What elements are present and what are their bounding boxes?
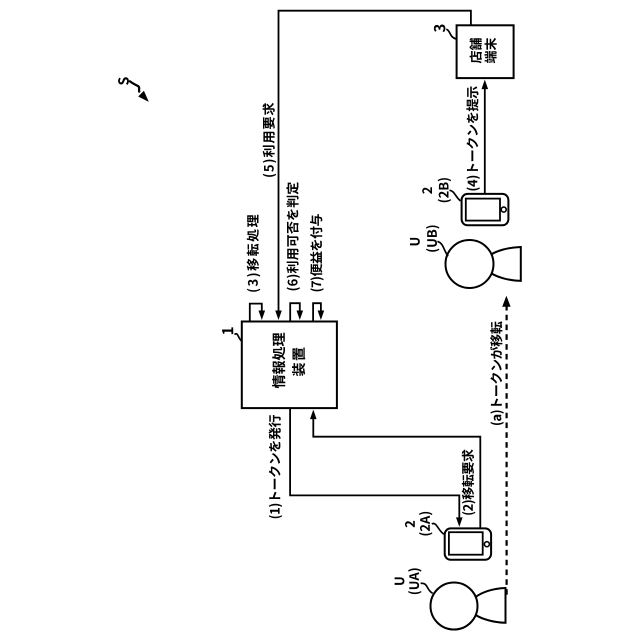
box: information processing device (1) 情報処理装置	[242, 322, 337, 409]
label: 情報処理 (line 1 of server box)	[272, 333, 285, 388]
label: 装置 (line 2 of server box)	[292, 348, 305, 377]
label (1)トークンを発行	[269, 415, 283, 518]
self-loop arrow (6) on server box right edge	[290, 303, 300, 321]
label (3)移転処理	[247, 215, 261, 292]
label: 端末 (line 2)	[485, 38, 497, 63]
phone 2B screen	[466, 199, 500, 221]
leader squiggle for (2A)	[432, 523, 444, 534]
phone 2A home button	[484, 542, 489, 547]
leader squiggle for 1	[235, 334, 243, 342]
label (7)便益を付与	[310, 214, 324, 291]
digit 2	[422, 187, 432, 194]
(UB)	[426, 226, 439, 252]
digit 1	[222, 327, 233, 334]
dashed arrow (a): token transfer from UA to UB	[506, 306, 508, 595]
person UA head	[431, 583, 478, 630]
self-loop arrow (3) on server box right edge	[250, 304, 262, 321]
wire (5): store terminal to server, usage request	[279, 11, 471, 312]
label (2)移転要求	[462, 449, 476, 514]
digit 3	[434, 25, 446, 33]
wire (4): phone 2B to store terminal, present token	[484, 88, 486, 194]
person UA body	[476, 588, 506, 623]
(2B)	[438, 178, 451, 202]
person UB body	[491, 247, 521, 281]
label (5)利用要求	[263, 103, 277, 177]
person UB head	[446, 240, 494, 288]
phone 2B home button	[501, 207, 506, 212]
leader squiggle for (UA)	[421, 583, 433, 593]
leader squiggle for (2B)	[450, 190, 461, 201]
smartphone 2A (user terminal)	[445, 528, 491, 559]
self-loop arrow (7) on server box right edge	[313, 303, 321, 321]
letter U	[410, 238, 420, 246]
label: 店舗 (line 1)	[470, 38, 482, 63]
label (6)利用可否を判定	[286, 182, 300, 290]
label (a)トークンが移転	[490, 321, 504, 425]
smartphone 2B (user terminal)	[462, 194, 509, 225]
label (4)トークンを提示	[466, 86, 480, 190]
S squiggle arrow	[129, 81, 140, 93]
letter U	[395, 577, 405, 585]
phone 2A screen	[449, 532, 483, 555]
(UA)	[408, 568, 421, 594]
wire (2): phone 2A to server, transfer request	[313, 418, 480, 528]
digit 2	[405, 521, 415, 528]
(2A)	[419, 512, 432, 536]
letter S	[118, 77, 129, 85]
leader squiggle for 3	[446, 29, 456, 39]
leader squiggle for (UB)	[438, 241, 449, 256]
box: store terminal (3) 店舗端末	[457, 25, 514, 78]
wire (1): server to phone 2A, issue token	[290, 408, 459, 518]
